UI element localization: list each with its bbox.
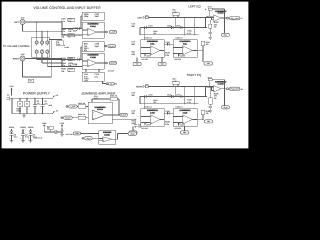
- svg-text:VOLUME CONTROL AND INPUT BUFFE: VOLUME CONTROL AND INPUT BUFFER: [33, 6, 101, 10]
- svg-text:0.1u: 0.1u: [25, 136, 29, 139]
- svg-text:4.7k: 4.7k: [187, 101, 190, 104]
- svg-text:C131 0.1: C131 0.1: [145, 106, 152, 109]
- svg-text:10uF: 10uF: [94, 97, 98, 100]
- svg-text:C131 0.1: C131 0.1: [145, 37, 152, 40]
- svg-text:VR201: VR201: [9, 126, 15, 129]
- svg-text:HIG: HIG: [132, 53, 136, 56]
- svg-text:+: +: [9, 138, 10, 140]
- svg-text:+: +: [103, 139, 104, 142]
- svg-text:+15: +15: [55, 94, 58, 97]
- svg-text:+: +: [88, 64, 89, 67]
- svg-text:47k: 47k: [84, 49, 87, 52]
- svg-text:C123: C123: [167, 94, 171, 97]
- svg-text:R205 22k: R205 22k: [110, 95, 117, 98]
- svg-text:C129: C129: [181, 123, 185, 126]
- svg-text:+: +: [20, 138, 21, 140]
- svg-text:LEFT: LEFT: [138, 16, 144, 19]
- svg-text:C133: C133: [166, 41, 170, 44]
- svg-text:−: −: [88, 30, 89, 32]
- svg-text:10u: 10u: [138, 126, 141, 129]
- svg-text:C121: C121: [148, 94, 152, 97]
- svg-text:0.1u: 0.1u: [14, 136, 18, 139]
- svg-text:10k: 10k: [61, 36, 64, 39]
- svg-text:RIGHT: RIGHT: [136, 85, 143, 88]
- svg-text:4.7k: 4.7k: [187, 32, 190, 35]
- svg-text:IC201B: IC201B: [104, 133, 110, 136]
- svg-text:C127: C127: [147, 123, 151, 126]
- svg-text:LED1: LED1: [60, 122, 65, 125]
- svg-text:10k: 10k: [68, 20, 71, 23]
- svg-text:750: 750: [153, 101, 156, 104]
- svg-text:VR203: VR203: [20, 126, 26, 129]
- svg-text:−: −: [183, 116, 184, 118]
- svg-text:C125: C125: [176, 25, 180, 28]
- svg-text:1k: 1k: [68, 36, 70, 39]
- svg-text:IC103A: IC103A: [218, 12, 225, 15]
- svg-text:0.1u: 0.1u: [95, 75, 99, 78]
- svg-text:TO VOLUME CONTROL: TO VOLUME CONTROL: [3, 45, 31, 48]
- svg-text:−: −: [151, 47, 152, 49]
- svg-text:47k: 47k: [206, 43, 209, 46]
- svg-text:+: +: [88, 33, 89, 36]
- svg-text:J101: J101: [21, 16, 25, 19]
- svg-text:47u: 47u: [44, 102, 47, 105]
- svg-text:C135 0.1: C135 0.1: [176, 106, 183, 109]
- svg-text:+: +: [28, 138, 29, 140]
- svg-text:PS: PS: [110, 83, 112, 85]
- svg-text:10k: 10k: [57, 43, 60, 46]
- svg-text:1k: 1k: [68, 70, 70, 73]
- svg-text:C133: C133: [166, 110, 170, 113]
- svg-text:47k: 47k: [206, 112, 209, 115]
- svg-text:C215 0.1uF: C215 0.1uF: [34, 136, 43, 139]
- svg-text:IC101A: IC101A: [90, 25, 96, 28]
- svg-text:C135 0.1: C135 0.1: [176, 37, 183, 40]
- svg-text:IC201A: IC201A: [97, 108, 104, 111]
- svg-text:-15: -15: [55, 110, 58, 113]
- svg-text:R1: R1: [30, 80, 32, 83]
- svg-text:100k: 100k: [84, 15, 88, 18]
- svg-text:4.02K: 4.02K: [172, 11, 177, 14]
- svg-text:4.02K: 4.02K: [172, 80, 177, 83]
- svg-text:+: +: [93, 117, 94, 120]
- svg-text:J102: J102: [21, 53, 25, 56]
- svg-text:C123: C123: [167, 25, 171, 28]
- svg-text:750: 750: [153, 32, 156, 35]
- svg-text:2.2k: 2.2k: [165, 123, 169, 126]
- svg-text:C121: C121: [148, 25, 152, 28]
- svg-text:47u: 47u: [37, 102, 40, 105]
- svg-text:1N40: 1N40: [16, 110, 21, 113]
- svg-text:LEFT: LEFT: [14, 21, 20, 24]
- svg-text:C129: C129: [181, 54, 185, 57]
- svg-text:2.2k: 2.2k: [165, 54, 169, 57]
- svg-text:+: +: [151, 122, 152, 125]
- svg-text:+: +: [151, 53, 152, 56]
- svg-text:−: −: [93, 112, 94, 114]
- svg-text:IC101B: IC101B: [90, 56, 96, 59]
- svg-text:C125: C125: [176, 94, 180, 97]
- svg-text:C127: C127: [147, 54, 151, 57]
- svg-text:VR205: VR205: [28, 126, 34, 129]
- svg-text:RIGHT EQ: RIGHT EQ: [187, 73, 202, 77]
- svg-text:PWR: PWR: [42, 122, 47, 125]
- svg-text:F201: F201: [9, 85, 13, 88]
- svg-text:−: −: [151, 116, 152, 118]
- svg-text:−: −: [88, 61, 89, 63]
- svg-text:IC10R: IC10R: [150, 111, 155, 114]
- svg-text:10k: 10k: [68, 30, 71, 33]
- svg-text:10k: 10k: [61, 70, 64, 73]
- svg-text:RIGHT: RIGHT: [13, 57, 20, 60]
- svg-text:POWER SUPPLY: POWER SUPPLY: [23, 91, 51, 95]
- svg-text:−: −: [183, 47, 184, 49]
- svg-text:IC103B: IC103B: [218, 82, 225, 85]
- svg-text:LEFT EQ: LEFT EQ: [188, 5, 201, 9]
